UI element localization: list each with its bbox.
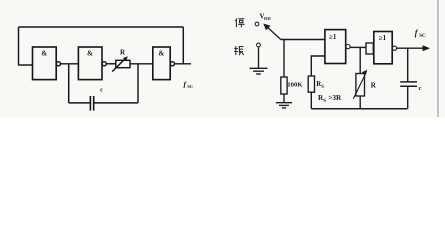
wire: feedback left vertical: [18, 27, 20, 65]
svg-text:>3R: >3R: [328, 94, 342, 102]
svg-text:&: &: [158, 50, 164, 58]
svg-text:S: S: [321, 85, 324, 90]
gate UA (NOR, >=1) box: [325, 30, 346, 64]
svg-text:DD: DD: [264, 16, 271, 21]
gate U2 (NAND, &) box: [78, 47, 102, 80]
capacitor C left plate: [89, 96, 91, 111]
switch S arrowhead: [263, 24, 270, 31]
wire: output with arrow: [397, 47, 424, 49]
wire: RS bottom to bottom rail: [310, 92, 312, 109]
node B: junction vertical to bottom RC: [137, 64, 139, 103]
wire: U2 output to resistor R: [106, 63, 115, 65]
wire: input to gate U1: [18, 64, 33, 66]
svg-text:R: R: [371, 82, 377, 90]
wire: RS top vertical and gate UA lower input: [311, 56, 325, 76]
svg-text:SC: SC: [419, 34, 426, 39]
svg-text:f: f: [415, 29, 419, 38]
output arrowhead: [423, 45, 430, 51]
contact circle (stop / VDD): [255, 22, 259, 26]
wire: R bottom to bottom rail: [359, 96, 361, 109]
wire: U1 output to U2 input: [61, 63, 79, 65]
resistor R1 100K body: [281, 77, 287, 94]
resistor R wiper arrow: [112, 58, 126, 71]
contact circle (oscillate): [257, 43, 261, 47]
scan edge grey border: [437, 0, 439, 117]
wire: switch to gate UA upper input: [281, 39, 325, 41]
gate U3 output bubble: [170, 62, 174, 66]
capacitor C top plate: [400, 81, 417, 83]
svg-text:c: c: [419, 85, 422, 92]
ground (below oscillate contact): [250, 68, 268, 74]
gate U2 output bubble: [102, 62, 106, 66]
svg-text:≥1: ≥1: [329, 33, 337, 41]
resistor R (variable) body: [116, 60, 130, 67]
wire: top feedback horizontal: [19, 26, 184, 28]
node A: junction vertical to bottom RC: [68, 64, 70, 103]
label 振 (oscillate): [234, 46, 244, 55]
wire: R to gate U3: [130, 63, 153, 65]
wire: UA output to UB input: [350, 46, 366, 48]
resistor RS body: [308, 76, 314, 92]
switch S arm: [266, 26, 281, 40]
gate UB (NOR, >=1) box: [374, 32, 392, 64]
wire: bottom rail: [311, 108, 407, 110]
wire: vertical from output to capacitor C: [407, 48, 409, 82]
svg-text:&: &: [41, 50, 47, 58]
svg-text:S: S: [323, 99, 326, 104]
wire: oscillate contact to ground: [258, 47, 260, 68]
resistor R arrowhead: [362, 70, 367, 75]
label 停 (stop): [235, 19, 244, 28]
svg-text:SC: SC: [187, 84, 193, 89]
ground (below R1): [276, 103, 292, 108]
wire: bottom right segment: [95, 102, 139, 104]
svg-text:100K: 100K: [287, 82, 303, 89]
wire: bottom left vertical to capacitor: [69, 102, 90, 104]
gate UA output bubble: [346, 45, 350, 49]
gate UB output bubble: [392, 46, 396, 50]
gate U1 (NAND, &) box: [33, 47, 57, 80]
resistor R (variable) body: [356, 74, 365, 97]
capacitor C right plate: [93, 96, 95, 111]
gate U3 (NAND, &) box: [153, 47, 170, 80]
resistor R wiper arrow line: [353, 75, 365, 99]
capacitor C bottom plate: [400, 85, 417, 87]
wire: vertical down to R1 100K: [283, 40, 285, 78]
svg-text:≥1: ≥1: [379, 34, 387, 42]
resistor R arrowhead: [123, 56, 128, 61]
wire: U3 output: [175, 63, 191, 65]
gate U1 output bubble: [56, 62, 60, 66]
wire: R1 to ground: [283, 94, 285, 103]
svg-text:c: c: [100, 86, 103, 93]
wire: stub down to variable resistor R: [359, 47, 361, 73]
svg-text:R: R: [120, 48, 126, 56]
gate UB input small box: [366, 43, 373, 54]
wire: capacitor to bottom rail: [407, 86, 409, 109]
svg-text:&: &: [87, 50, 93, 58]
wire: feedback right vertical: [182, 27, 184, 64]
